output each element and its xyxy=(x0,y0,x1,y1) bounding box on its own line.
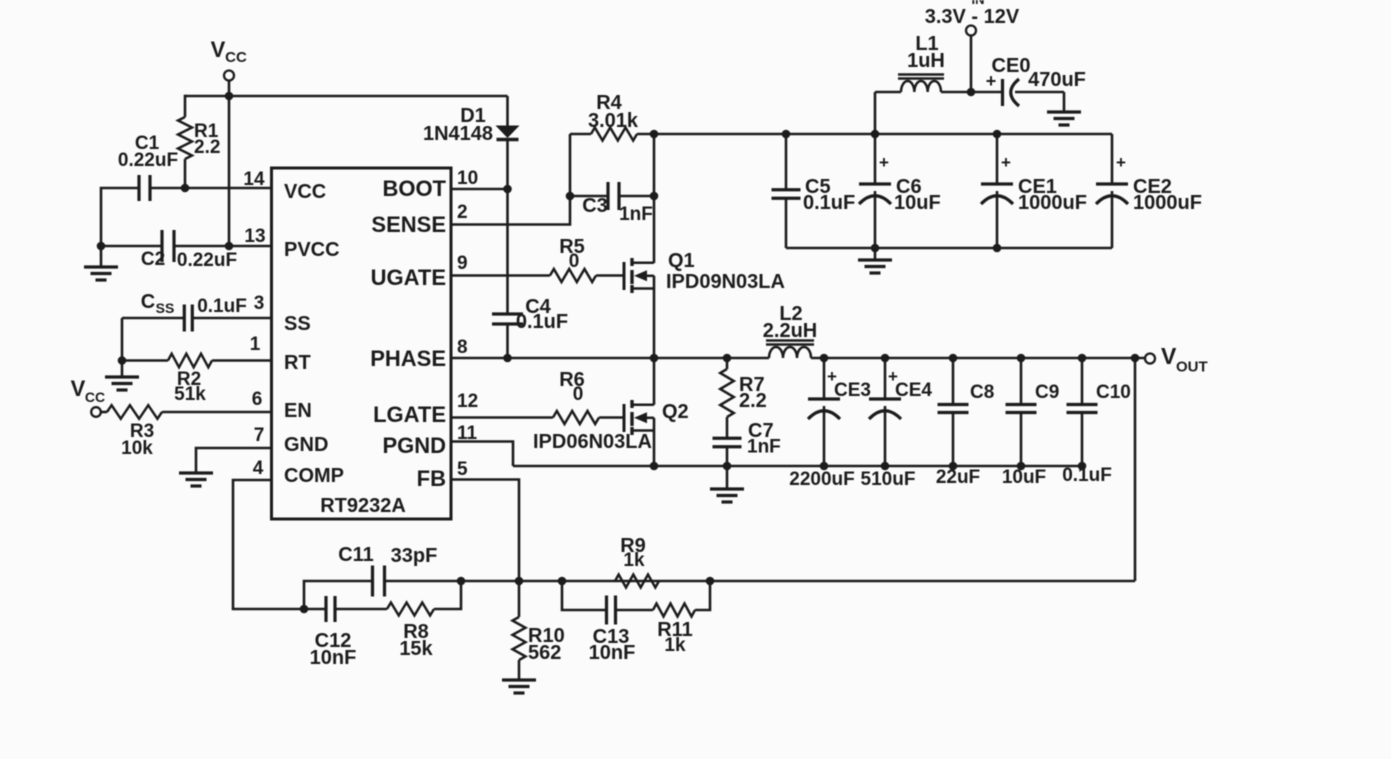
wire VOUT rail y=358 xyxy=(811,357,1145,360)
wire VCC terminal down to PVCC line (x=229) xyxy=(228,81,231,247)
svg-text:0.1uF: 0.1uF xyxy=(803,192,855,214)
resistor R10 562 (FB to ground) xyxy=(513,581,565,679)
transistor Q2 IPD06N03LA (low side N-MOSFET) xyxy=(533,358,689,466)
capacitor C8 22uF xyxy=(936,358,994,488)
svg-text:SS: SS xyxy=(284,313,311,335)
svg-text:EN: EN xyxy=(284,400,312,422)
junction CE1 bottom xyxy=(993,244,1002,253)
svg-text:PHASE: PHASE xyxy=(370,346,446,371)
wire GND pin7 to ground xyxy=(196,448,272,472)
capacitor C5 0.1uF (input) xyxy=(772,134,856,248)
svg-text:V: V xyxy=(71,376,86,401)
svg-text:+: + xyxy=(1116,153,1126,172)
svg-text:IPD09N03LA: IPD09N03LA xyxy=(666,271,785,293)
capacitor C6 10uF (polarized, input) xyxy=(859,134,941,248)
svg-text:33pF: 33pF xyxy=(391,545,438,567)
pin 1 number xyxy=(250,334,261,355)
ground (below C1/C2 node) xyxy=(84,246,118,280)
svg-text:0: 0 xyxy=(573,384,584,405)
ground (below CE0) xyxy=(1047,112,1081,125)
svg-text:0.1uF: 0.1uF xyxy=(516,311,568,333)
capacitor CSS 0.1uF (soft start) xyxy=(122,291,272,332)
svg-text:V: V xyxy=(1161,343,1177,369)
junction CE4 top xyxy=(881,354,890,363)
wire input node down to Q1 drain xyxy=(653,134,656,263)
resistor R3 10k on EN line xyxy=(100,405,272,459)
wire pin14 VCC line y=188 xyxy=(150,187,272,190)
svg-text:5: 5 xyxy=(457,459,468,480)
svg-text:3.01k: 3.01k xyxy=(588,110,639,132)
svg-text:0: 0 xyxy=(569,251,580,272)
junction C5 on input rail xyxy=(782,130,791,139)
capacitor CE1 1000uF (polarized, input) xyxy=(981,134,1087,248)
wire PGND pin11 to power ground rail xyxy=(451,442,513,467)
pin 14 number xyxy=(243,169,265,190)
junction PVCC line / VCC drop xyxy=(225,242,234,251)
junction L1 on input rail xyxy=(871,130,880,139)
svg-text:C2: C2 xyxy=(141,249,165,270)
capacitor C13 10nF (parallel branch) xyxy=(562,581,635,664)
svg-text:1k: 1k xyxy=(664,635,686,656)
capacitor CE0 470uF (polarized, input) xyxy=(986,55,1086,106)
wire BOOT pin10 to bootstrap line xyxy=(451,188,508,191)
node VIN terminal 3.3V-12V xyxy=(925,0,1020,36)
junction R1 bottom on pin14 line xyxy=(181,184,190,193)
wire SENSE pin2 to R4/C3 left node xyxy=(451,196,570,225)
svg-text:2200uF: 2200uF xyxy=(789,469,854,490)
svg-text:10k: 10k xyxy=(121,438,153,459)
junction C9 top xyxy=(1017,354,1026,363)
pin 12 number xyxy=(457,391,478,412)
wire FB pin5 down to feedback rail xyxy=(451,480,519,582)
svg-text:1N4148: 1N4148 xyxy=(423,123,493,145)
svg-text:510uF: 510uF xyxy=(861,469,916,490)
junction snubber on ground rail xyxy=(723,462,732,471)
svg-text:10uF: 10uF xyxy=(894,192,941,214)
wire C7 to ground rail xyxy=(726,447,729,466)
svg-text:1k: 1k xyxy=(623,550,645,571)
ground (below CSS/R2 node) xyxy=(105,361,139,391)
pin 8 number xyxy=(457,337,468,358)
svg-text:562: 562 xyxy=(528,642,561,664)
junction VOUT feedback tap xyxy=(1131,354,1140,363)
resistor R11 1k (parallel branch) xyxy=(616,581,711,656)
svg-text:7: 7 xyxy=(254,425,265,446)
junction CE3 top xyxy=(820,354,829,363)
junction FB node on rail xyxy=(515,577,524,586)
svg-text:10uF: 10uF xyxy=(1002,467,1046,488)
junction CE4 bottom xyxy=(881,462,890,471)
capacitor C12 10nF (comp, bottom branch) xyxy=(304,596,356,669)
wire power ground rail y=466 xyxy=(513,465,1082,468)
junction BOOT node xyxy=(503,185,512,194)
junction COMP network left node xyxy=(300,605,309,614)
pin 2 number xyxy=(457,202,468,223)
junction RT/CSS/ground node xyxy=(118,356,127,365)
svg-text:470uF: 470uF xyxy=(1028,69,1086,91)
capacitor C2 0.22uF on PVCC line xyxy=(101,230,272,271)
wire CSS left down to RT node xyxy=(121,318,124,361)
svg-text:+: + xyxy=(1001,153,1011,172)
svg-text:10: 10 xyxy=(457,168,478,189)
junction C6 bottom xyxy=(871,244,880,253)
junction Q2 source on ground rail xyxy=(650,462,659,471)
pin 9 number xyxy=(457,253,468,274)
svg-text:2.2uH: 2.2uH xyxy=(763,320,817,342)
junction C10 top xyxy=(1078,354,1087,363)
capacitor C9 10uF xyxy=(1002,358,1059,488)
svg-text:22uF: 22uF xyxy=(936,467,980,488)
junction C9 bottom xyxy=(1017,462,1026,471)
pin 11 number xyxy=(457,423,478,444)
junction at C1/C2 ground corner xyxy=(97,242,106,251)
svg-text:OUT: OUT xyxy=(1176,359,1208,376)
svg-text:2: 2 xyxy=(457,202,468,223)
svg-text:12: 12 xyxy=(457,391,478,412)
svg-text:COMP: COMP xyxy=(284,465,344,487)
resistor R1 2.2 (vertical, x=185) xyxy=(178,95,220,188)
junction PHASE / Q1 source / Q2 drain xyxy=(650,354,659,363)
svg-text:10nF: 10nF xyxy=(310,647,357,669)
capacitor CE3 2200uF (polarized) xyxy=(789,358,871,490)
junction R9 branch left xyxy=(558,577,567,586)
svg-text:IPD06N03LA: IPD06N03LA xyxy=(533,431,652,453)
svg-text:C10: C10 xyxy=(1096,382,1131,403)
svg-text:1000uF: 1000uF xyxy=(1018,192,1087,214)
pin 4 number xyxy=(253,458,264,479)
resistor R5 0 (UGATE gate resistor) xyxy=(451,236,624,282)
svg-text:1nF: 1nF xyxy=(747,437,781,458)
svg-text:1nF: 1nF xyxy=(619,204,653,225)
capacitor C4 0.1uF (bootstrap) xyxy=(492,296,568,333)
svg-text:SS: SS xyxy=(156,300,175,316)
svg-text:0.22uF: 0.22uF xyxy=(177,250,237,271)
svg-text:C8: C8 xyxy=(970,382,994,403)
svg-text:UGATE: UGATE xyxy=(371,265,446,290)
ground (below R10) xyxy=(502,680,536,693)
pin 5 number xyxy=(457,459,468,480)
junction on top rail at VCC drop xyxy=(225,92,234,101)
resistor R8 15k (comp, bottom branch) xyxy=(335,581,461,660)
svg-text:1uH: 1uH xyxy=(907,50,945,72)
capacitor CE4 510uF (polarized) xyxy=(861,358,933,490)
junction R4/C3 left node xyxy=(566,192,575,201)
ground (GND pin 7) xyxy=(179,473,213,486)
svg-text:Q1: Q1 xyxy=(668,250,695,272)
inductor L1 1uH (input filter) xyxy=(875,33,1002,92)
node VOUT terminal xyxy=(1145,343,1208,376)
op-amp U1 RT9232A controller box xyxy=(272,168,452,519)
svg-text:2.2: 2.2 xyxy=(739,390,767,412)
junction comp network right node xyxy=(457,577,466,586)
svg-text:RT: RT xyxy=(284,352,311,374)
svg-text:C: C xyxy=(141,291,155,313)
capacitor C11 33pF (comp, top branch) xyxy=(304,544,461,609)
pin 3 number xyxy=(254,293,265,314)
wire feedback rail y=581 xyxy=(461,580,1135,583)
wire input ground rail y=248 xyxy=(786,247,1112,250)
junction CE3 bottom xyxy=(820,462,829,471)
svg-text:9: 9 xyxy=(457,253,468,274)
wire input rail y=134 xyxy=(654,133,1112,136)
resistor R4 3.01k xyxy=(570,92,654,141)
svg-text:1000uF: 1000uF xyxy=(1133,192,1202,214)
wire PHASE pin8 line xyxy=(451,357,769,360)
capacitor C10 0.1uF xyxy=(1062,358,1131,486)
svg-text:CC: CC xyxy=(225,49,247,66)
svg-text:0.1uF: 0.1uF xyxy=(1062,465,1112,486)
resistor R2 51k on RT line xyxy=(122,354,272,405)
svg-text:3: 3 xyxy=(254,293,265,314)
wire riser R4 left leg xyxy=(569,134,572,196)
pin 13 number xyxy=(244,226,265,247)
svg-text:51k: 51k xyxy=(174,384,206,405)
pin 7 number xyxy=(254,425,265,446)
resistor R9 1k (feedback) xyxy=(615,535,659,588)
svg-text:13: 13 xyxy=(244,226,265,247)
wire C4 to PHASE line xyxy=(506,324,509,358)
svg-text:RT9232A: RT9232A xyxy=(320,495,406,517)
wire top rail y=96 from R1 top to D1 corner xyxy=(185,95,508,98)
junction PHASE at snubber xyxy=(723,354,732,363)
junction CE1 on input rail xyxy=(993,130,1002,139)
svg-text:0.1uF: 0.1uF xyxy=(197,296,247,317)
pin 10 number xyxy=(457,168,478,189)
svg-text:15k: 15k xyxy=(399,638,433,660)
svg-text:PGND: PGND xyxy=(382,433,446,458)
svg-text:CE3: CE3 xyxy=(834,380,871,401)
junction VIN on L1 output line xyxy=(967,88,976,97)
wire feedback riser x=1135 xyxy=(1134,358,1137,581)
svg-text:VCC: VCC xyxy=(284,181,326,203)
transistor Q1 IPD09N03LA (high side N-MOSFET) xyxy=(624,250,785,358)
ground (input cap bank) xyxy=(858,248,892,273)
svg-text:+: + xyxy=(879,153,889,172)
capacitor C1 0.22uF xyxy=(118,133,178,201)
svg-text:CE4: CE4 xyxy=(895,380,932,401)
junction C10 bottom xyxy=(1078,462,1087,471)
svg-text:4: 4 xyxy=(253,458,264,479)
svg-text:1: 1 xyxy=(250,334,261,355)
inductor L2 2.2uH xyxy=(763,303,817,358)
node VCC (EN pull-up terminal) xyxy=(71,376,105,417)
svg-text:10nF: 10nF xyxy=(589,642,636,664)
capacitor C7 1nF (snubber) xyxy=(713,420,781,458)
svg-text:CE0: CE0 xyxy=(992,55,1031,77)
svg-text:Q2: Q2 xyxy=(662,401,689,423)
svg-text:V: V xyxy=(211,37,226,62)
resistor R6 0 (LGATE gate resistor) xyxy=(451,369,624,424)
junction C8 bottom xyxy=(949,462,958,471)
svg-text:C11: C11 xyxy=(338,544,374,566)
wire C1 left plate to ground corner xyxy=(101,188,139,246)
wire L1 down to input rail xyxy=(874,92,877,134)
svg-text:C9: C9 xyxy=(1035,382,1059,403)
junction PHASE at bootstrap cap xyxy=(503,354,512,363)
junction C8 top xyxy=(949,354,958,363)
junction R9 branch right xyxy=(706,577,715,586)
svg-text:BOOT: BOOT xyxy=(382,176,446,201)
svg-text:CC: CC xyxy=(85,389,105,405)
svg-text:LGATE: LGATE xyxy=(373,402,446,427)
wire bootstrap line BOOT to C4 xyxy=(506,189,509,314)
node VCC (top-left supply terminal) xyxy=(211,37,247,81)
svg-text:14: 14 xyxy=(243,169,265,190)
diode D1 1N4148 (vertical, anode up) xyxy=(423,96,520,189)
svg-text:SENSE: SENSE xyxy=(371,212,446,237)
wire COMP pin4 down to compensation network xyxy=(233,480,304,609)
svg-text:2.2: 2.2 xyxy=(194,137,220,158)
svg-text:8: 8 xyxy=(457,337,468,358)
wire VIN terminal down xyxy=(970,36,973,93)
svg-text:PVCC: PVCC xyxy=(284,239,340,261)
capacitor C3 1nF (parallel with R4) xyxy=(570,182,654,225)
svg-text:6: 6 xyxy=(252,389,263,410)
svg-text:0.22uF: 0.22uF xyxy=(118,150,178,171)
svg-text:GND: GND xyxy=(284,434,328,456)
ground (below snubber node) xyxy=(710,466,744,502)
junction C3 right node xyxy=(650,192,659,201)
resistor R7 2.2 (snubber) xyxy=(720,358,767,438)
pin 6 number xyxy=(252,389,263,410)
capacitor CE2 1000uF (polarized, input) xyxy=(1096,134,1202,248)
svg-text:C3: C3 xyxy=(582,195,608,217)
junction R4 right / input rail xyxy=(650,130,659,139)
wire CE0 to ground xyxy=(1063,92,1066,111)
svg-text:FB: FB xyxy=(417,466,446,491)
